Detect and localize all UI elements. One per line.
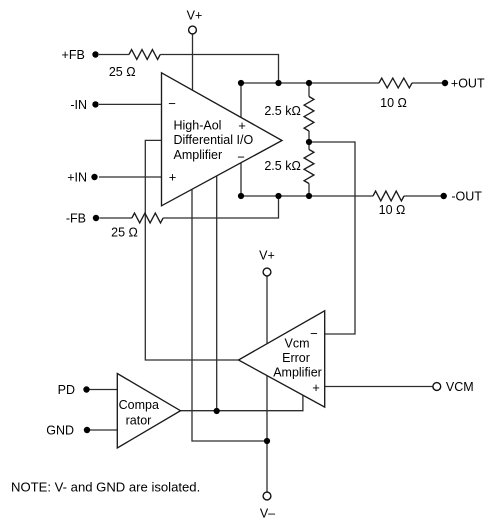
wire R6 to bottom line bbox=[308, 184, 310, 197]
svg-text:Error: Error bbox=[282, 351, 310, 365]
wire +IN to U1 bbox=[99, 176, 162, 178]
terminal +OUT (solid pin) bbox=[442, 80, 448, 86]
terminal V+ top (open circle) bbox=[189, 26, 197, 34]
wire +OUT net bbox=[241, 82, 379, 84]
terminal VCM (open circle) bbox=[433, 383, 441, 391]
wire PD to comparator bbox=[90, 389, 118, 391]
node junction -out/stub bbox=[238, 193, 244, 199]
op-amp U1 High-Aol Differential I/O Amplifier bbox=[162, 73, 283, 206]
wire R4 to -OUT terminal bbox=[404, 195, 441, 197]
node junction +FB/+out net bbox=[275, 80, 281, 86]
svg-text:25 Ω: 25 Ω bbox=[109, 65, 136, 79]
wire comparator output to U2 shutdown pin bbox=[181, 395, 303, 411]
wire U2 + input to VCM terminal bbox=[325, 386, 433, 388]
node junction divider midpoint bbox=[306, 139, 312, 145]
svg-text:−: − bbox=[168, 96, 176, 111]
svg-text:rator: rator bbox=[126, 413, 152, 427]
wire R2 to -OUT net bbox=[163, 196, 278, 218]
svg-text:V–: V– bbox=[260, 507, 275, 521]
wire +FB terminal to R1 bbox=[99, 54, 129, 56]
svg-text:V+: V+ bbox=[259, 248, 275, 262]
resistor 25 ohm (-FB) bbox=[132, 213, 163, 223]
svg-text:+FB: +FB bbox=[62, 48, 85, 62]
svg-text:+IN: +IN bbox=[67, 170, 87, 184]
svg-text:VCM: VCM bbox=[446, 380, 474, 394]
node junction V- net bbox=[264, 438, 270, 444]
op-amp U2 Vcm Error Amplifier bbox=[239, 311, 325, 407]
wire R3 to +OUT terminal bbox=[412, 82, 442, 84]
wire U1 shutdown pin to comparator output bbox=[216, 176, 218, 411]
wire Vcm error amp output feedback to U1 bbox=[145, 140, 238, 360]
wire -OUT net bbox=[241, 195, 373, 197]
resistor 2.5 kohm (upper divider) bbox=[304, 97, 314, 132]
svg-text:+: + bbox=[169, 170, 177, 185]
resistor 10 ohm (+OUT) bbox=[379, 78, 412, 88]
wire -IN to U1 bbox=[99, 103, 162, 105]
svg-text:+: + bbox=[238, 118, 246, 133]
svg-text:-OUT: -OUT bbox=[451, 190, 482, 204]
svg-text:Vcm: Vcm bbox=[285, 337, 310, 351]
wire top line to R5 bbox=[308, 83, 310, 97]
svg-text:+: + bbox=[312, 380, 320, 395]
svg-text:-FB: -FB bbox=[66, 211, 86, 225]
svg-text:High-Aol: High-Aol bbox=[174, 119, 222, 133]
wire divider midpoint to U2 - input bbox=[309, 142, 355, 334]
svg-text:NOTE: V- and GND are isolated.: NOTE: V- and GND are isolated. bbox=[11, 479, 200, 494]
svg-text:Differential I/O: Differential I/O bbox=[174, 133, 254, 147]
node junction divider bottom bbox=[306, 193, 312, 199]
svg-text:Amplifier: Amplifier bbox=[273, 366, 322, 380]
node junction divider top bbox=[306, 80, 312, 86]
wire R1 to +OUT net bbox=[160, 55, 278, 84]
svg-text:Compa: Compa bbox=[119, 398, 159, 412]
wire U1 V- pin to V- net bbox=[192, 189, 267, 441]
svg-text:+OUT: +OUT bbox=[451, 77, 485, 91]
svg-text:GND: GND bbox=[46, 423, 74, 437]
wire -FB terminal to R2 bbox=[100, 217, 132, 219]
wire GND to comparator bbox=[90, 429, 117, 431]
svg-text:2.5 kΩ: 2.5 kΩ bbox=[264, 104, 300, 118]
svg-text:V+: V+ bbox=[187, 9, 203, 23]
resistor 10 ohm (-OUT) bbox=[373, 191, 404, 201]
wire U2 V- pin to V- terminal bbox=[266, 376, 268, 492]
svg-text:−: − bbox=[310, 326, 318, 341]
wire R5 to R6 midpoint bbox=[308, 131, 310, 150]
terminal GND (solid pin) bbox=[84, 427, 90, 433]
wire U1 - output stub bbox=[240, 163, 242, 196]
svg-text:−: − bbox=[237, 149, 245, 164]
svg-text:2.5 kΩ: 2.5 kΩ bbox=[264, 159, 300, 173]
svg-text:10 Ω: 10 Ω bbox=[380, 96, 407, 110]
terminal +FB (solid pin) bbox=[92, 51, 98, 57]
terminal PD (solid pin) bbox=[83, 386, 89, 392]
terminal -IN (solid pin) bbox=[92, 101, 98, 107]
node junction comparator out / U1 shutdown bbox=[214, 408, 220, 414]
svg-text:PD: PD bbox=[58, 383, 75, 397]
svg-text:25 Ω: 25 Ω bbox=[111, 225, 138, 239]
node junction +out/stub bbox=[238, 80, 244, 86]
wire U1 + output stub bbox=[240, 83, 242, 117]
comparator U3 bbox=[117, 374, 180, 449]
terminal V+ mid (open circle) bbox=[263, 268, 271, 276]
resistor 2.5 kohm (lower divider) bbox=[304, 150, 314, 184]
resistor 25 ohm (+FB) bbox=[129, 50, 160, 60]
svg-text:Amplifier: Amplifier bbox=[174, 148, 223, 162]
terminal V- (open circle) bbox=[263, 492, 271, 500]
terminal -OUT (solid pin) bbox=[441, 193, 447, 199]
svg-text:10 Ω: 10 Ω bbox=[379, 203, 406, 217]
terminal +IN (solid pin) bbox=[91, 174, 97, 180]
wire V+ supply to U1 top edge bbox=[192, 34, 194, 90]
wire V+ supply to U2 top edge bbox=[266, 276, 268, 343]
svg-text:-IN: -IN bbox=[70, 98, 87, 112]
node junction -FB/-out net bbox=[275, 193, 281, 199]
terminal -FB (solid pin) bbox=[93, 215, 99, 221]
